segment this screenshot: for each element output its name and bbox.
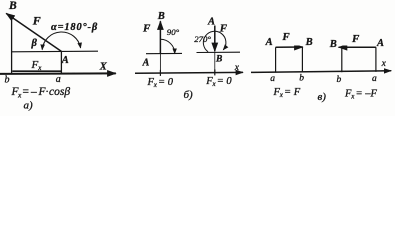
svg-text:α=180°-β: α=180°-β bbox=[51, 22, 98, 33]
svg-text:а): а) bbox=[24, 100, 34, 112]
svg-text:A: A bbox=[376, 38, 384, 49]
svg-text:F: F bbox=[32, 13, 41, 27]
svg-text:270°: 270° bbox=[194, 34, 211, 44]
svg-text:b: b bbox=[299, 74, 304, 84]
svg-text:F: F bbox=[219, 23, 228, 35]
svg-text:B: B bbox=[215, 54, 222, 64]
svg-text:A: A bbox=[61, 55, 69, 66]
svg-text:A: A bbox=[142, 57, 150, 68]
svg-text:b: b bbox=[5, 75, 10, 86]
svg-text:в): в) bbox=[318, 91, 327, 103]
svg-text:b: b bbox=[337, 75, 342, 85]
svg-text:B: B bbox=[157, 11, 165, 22]
svg-text:–: – bbox=[30, 86, 37, 98]
svg-text:F: F bbox=[142, 22, 151, 34]
svg-text:A: A bbox=[265, 37, 273, 48]
svg-text:x: x bbox=[234, 63, 240, 73]
svg-text:= –F: = –F bbox=[356, 88, 378, 99]
svg-text:B: B bbox=[329, 39, 337, 50]
svg-text:cosβ: cosβ bbox=[49, 86, 70, 98]
svg-text:= 0: = 0 bbox=[217, 76, 233, 87]
svg-text:a: a bbox=[56, 74, 61, 85]
svg-text:a: a bbox=[270, 74, 275, 84]
svg-text:= F: = F bbox=[284, 87, 301, 98]
svg-text:=: = bbox=[22, 86, 30, 98]
svg-text:F: F bbox=[281, 31, 290, 43]
svg-text:x: x bbox=[381, 59, 387, 69]
svg-text:F: F bbox=[351, 33, 360, 45]
svg-text:a: a bbox=[372, 74, 377, 84]
svg-text:= 0: = 0 bbox=[158, 77, 174, 88]
svg-text:X: X bbox=[99, 62, 108, 73]
svg-text:B: B bbox=[8, 0, 17, 12]
svg-text:A: A bbox=[207, 17, 215, 28]
svg-text:90°: 90° bbox=[167, 27, 180, 37]
svg-text:β: β bbox=[31, 38, 38, 49]
svg-text:б): б) bbox=[184, 89, 194, 101]
svg-text:B: B bbox=[305, 37, 313, 48]
